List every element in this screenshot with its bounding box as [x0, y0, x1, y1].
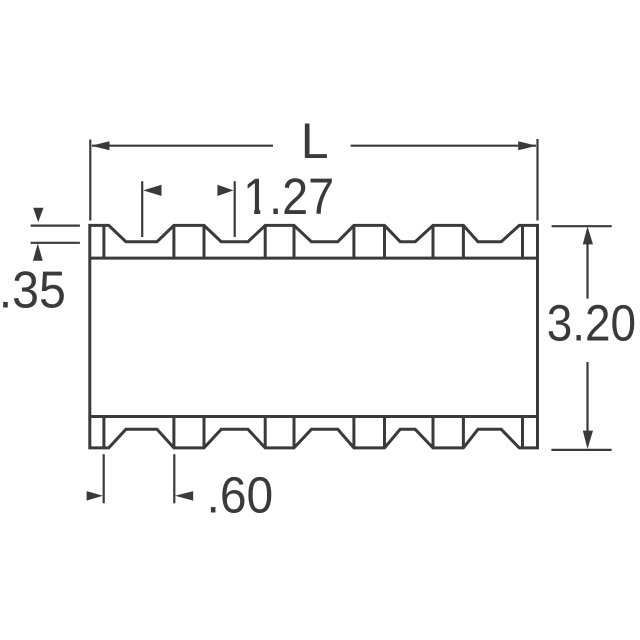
L dimension line left segment: [92, 145, 273, 147]
svg-text:.35: .35: [0, 261, 66, 319]
3.20 top extension line: [552, 225, 612, 227]
3.20 bottom extension line: [551, 449, 611, 451]
L dimension right extension line: [536, 139, 538, 221]
3.20 dimension line lower segment: [586, 362, 588, 444]
package body outline with castellated terminals: [90, 225, 538, 448]
svg-text:.60: .60: [207, 467, 274, 524]
.35 down arrowhead: [33, 208, 43, 223]
1.27 dimension left extension line: [141, 181, 143, 237]
.60 right arrowhead: [175, 491, 193, 501]
svg-text:3.20: 3.20: [547, 295, 636, 352]
.60 left arrowhead: [87, 491, 103, 501]
1.27 dimension right extension line: [234, 181, 236, 237]
3.20 dimension line upper segment: [586, 240, 588, 299]
top band terminal edge verticals: [104, 225, 523, 258]
1.27 right arrowhead: [217, 185, 233, 196]
L dimension left extension line: [89, 140, 91, 221]
1.27 left arrowhead: [143, 185, 161, 196]
3.20 down arrowhead: [583, 431, 593, 449]
.60 dimension right extension line: [173, 454, 175, 503]
svg-text:1.27: 1.27: [243, 169, 334, 225]
white mask to remove Liberation "1" foot serif (target 1 has no foot): [245, 208, 268, 215]
.35 bottom extension line: [31, 242, 80, 244]
bottom band terminal edge verticals: [104, 417, 523, 448]
.35 top extension line: [31, 225, 80, 227]
L dimension line right segment: [351, 145, 536, 147]
L dimension left arrowhead: [91, 141, 110, 150]
3.20 up arrowhead: [583, 226, 593, 244]
svg-text:L: L: [301, 113, 329, 169]
top terminal band separator line: [90, 257, 538, 260]
.60 dimension left extension line: [103, 454, 105, 503]
L dimension right arrowhead: [518, 141, 537, 150]
.35 up arrowhead: [33, 243, 43, 260]
bottom terminal band separator line: [90, 415, 538, 418]
